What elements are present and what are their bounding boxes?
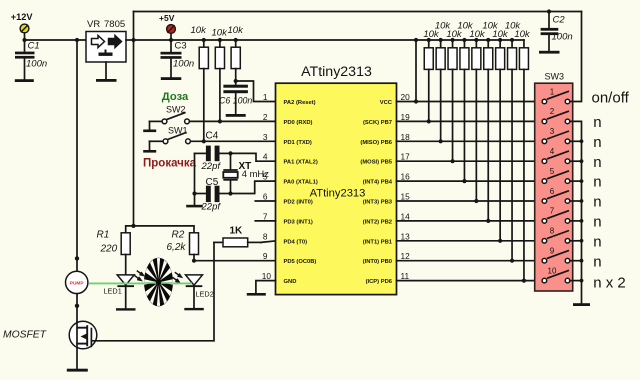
pin 11 name PD6 [366, 271, 410, 285]
svg-text:22pf: 22pf [201, 161, 222, 172]
svg-text:Прокачка: Прокачка [143, 158, 197, 170]
pin 5 name PA0 [263, 172, 318, 186]
svg-text:С6 100n: С6 100n [219, 95, 252, 105]
wire pin10 to ground [256, 281, 276, 293]
motor PUMP [66, 271, 88, 293]
svg-text:5: 5 [263, 172, 268, 182]
wire +12V rail to VR input [25, 39, 87, 41]
node C5 left [192, 191, 196, 195]
resistor bank 10k pin16 [460, 38, 469, 183]
switch SW3 row2 [542, 107, 570, 124]
wire SW3 row1 to top rail [570, 12, 582, 102]
capacitor C4 [195, 131, 231, 173]
svg-text:16: 16 [401, 172, 411, 182]
ground pin10 [247, 293, 266, 296]
svg-text:C4: C4 [206, 131, 219, 142]
ground C6 [226, 114, 246, 117]
svg-text:PA1 (XTAL2): PA1 (XTAL2) [284, 160, 318, 166]
svg-text:14: 14 [401, 211, 411, 221]
node Prokachka label [143, 158, 197, 170]
switch SW3 row1 [542, 87, 570, 103]
wire beam green [89, 282, 192, 284]
fan encoder disc [144, 258, 173, 307]
svg-text:PD1 (TXD): PD1 (TXD) [284, 140, 312, 146]
wire +5V riser vertical [133, 12, 135, 226]
capacitor C2 [541, 9, 573, 50]
svg-text:VCC: VCC [380, 100, 393, 106]
svg-text:7805: 7805 [104, 19, 125, 30]
terminal +12V [20, 24, 29, 33]
svg-text:17: 17 [401, 152, 411, 162]
svg-text:ATtiny2313: ATtiny2313 [301, 64, 372, 80]
svg-text:R1: R1 [97, 230, 110, 241]
wire SW2 to pin2 [189, 120, 275, 122]
node +12V label [11, 12, 34, 22]
wire pin14 to SW3 [397, 220, 543, 222]
wire feed to R2 [134, 226, 195, 233]
svg-text:R2: R2 [172, 230, 185, 241]
svg-text:100n: 100n [173, 59, 194, 70]
node pump top dot [75, 256, 79, 260]
svg-text:9: 9 [263, 251, 268, 261]
wire VR ground stem [105, 62, 107, 79]
wire main +5V rail y40 [134, 39, 524, 41]
svg-text:1: 1 [550, 87, 555, 96]
node label n row5 [593, 174, 601, 191]
wire feed to R1 [126, 226, 134, 233]
svg-text:ATtiny2313: ATtiny2313 [310, 188, 366, 200]
resistor bank 10k pin13 [496, 38, 505, 243]
node reset junction [234, 79, 238, 83]
svg-text:6,2k: 6,2k [167, 242, 187, 253]
svg-text:n: n [593, 154, 601, 171]
switch SW3 dip block [535, 72, 573, 292]
svg-text:13: 13 [401, 231, 411, 241]
pin 13 name PB1 [363, 231, 410, 245]
svg-text:6: 6 [550, 187, 555, 196]
node label n row7 [593, 214, 601, 231]
svg-text:C2: C2 [553, 15, 566, 26]
svg-text:100n: 100n [26, 59, 47, 70]
node bank labels row upper [435, 21, 522, 32]
resistor R6 1K gate [214, 226, 276, 247]
wire pin15 to SW3 [397, 200, 543, 202]
svg-text:n: n [593, 194, 601, 211]
ground SW1 [143, 150, 156, 153]
ground C4 C5 [186, 205, 203, 208]
capacitor C3 [161, 40, 195, 77]
svg-text:10k: 10k [482, 21, 499, 32]
svg-text:12: 12 [401, 251, 411, 261]
svg-text:10: 10 [548, 266, 557, 275]
node label n row4 [593, 154, 601, 171]
ground SW3 [573, 303, 590, 306]
svg-text:n: n [593, 174, 601, 191]
svg-text:GND: GND [284, 279, 297, 285]
LED LED1 [104, 271, 144, 309]
svg-text:SW1: SW1 [168, 126, 188, 136]
svg-text:6: 6 [263, 192, 268, 202]
pin 16 name PB4 [363, 172, 410, 186]
pin 18 name PB6 [360, 132, 410, 146]
svg-text:3: 3 [550, 127, 555, 136]
node +5V label [159, 13, 175, 23]
svg-text:10k: 10k [505, 21, 522, 32]
wire VR output to +5V riser [126, 39, 134, 41]
node VR output [131, 38, 135, 42]
svg-text:10k: 10k [457, 21, 474, 32]
svg-text:LED2: LED2 [196, 289, 214, 298]
svg-text:4: 4 [263, 152, 268, 162]
capacitor C1 [15, 40, 47, 79]
svg-text:100n: 100n [552, 32, 573, 43]
svg-text:1K: 1K [230, 226, 244, 237]
svg-text:20: 20 [401, 92, 411, 102]
switch SW3 row10 [542, 266, 583, 283]
svg-text:PA2 (Reset): PA2 (Reset) [284, 100, 316, 106]
svg-text:n x 2: n x 2 [593, 275, 626, 292]
capacitor C5 [195, 177, 231, 213]
pin 17 name PB5 [360, 152, 410, 166]
LED LED2 photodiode [173, 272, 214, 308]
wire pin20 VCC to SW3 [397, 101, 543, 103]
svg-text:2: 2 [550, 107, 555, 116]
node label n row3 [593, 134, 601, 151]
switch SW3 row3 [542, 127, 583, 144]
wire caps ground stem [194, 194, 196, 205]
resistor bank 10k pin12 [508, 38, 517, 263]
wire SW3 common to ground [570, 121, 582, 303]
node label n row2 [593, 114, 601, 131]
resistor R2 6,2k [167, 230, 199, 261]
svg-text:PD4 (T0): PD4 (T0) [284, 239, 308, 245]
svg-text:PUMP: PUMP [70, 280, 85, 286]
op-amp U2 ATtiny2313 body [276, 64, 397, 295]
svg-text:(INT1) PB1: (INT1) PB1 [363, 239, 393, 245]
resistor bank 10k pin14 [484, 38, 493, 223]
switch SW3 row4 [542, 147, 583, 164]
wire pin18 to SW3 [397, 140, 543, 142]
op-amp U1 regulator VR 7805 [86, 19, 126, 62]
svg-text:PD5 (OC0B): PD5 (OC0B) [284, 259, 317, 265]
svg-text:(INT0) PB0: (INT0) PB0 [363, 259, 392, 265]
svg-text:C1: C1 [28, 41, 40, 52]
svg-text:(SCK) PB7: (SCK) PB7 [363, 120, 392, 126]
svg-text:(INT2) PB2: (INT2) PB2 [363, 219, 392, 225]
svg-text:n: n [593, 134, 601, 151]
svg-text:PD2 (INT0): PD2 (INT0) [284, 200, 313, 206]
pin 15 name PB3 [363, 192, 410, 206]
svg-text:VR: VR [87, 19, 100, 30]
wire C4 to pin4 [231, 153, 276, 161]
svg-text:8: 8 [263, 231, 268, 241]
wire pin11 to SW3 [397, 280, 543, 282]
resistor bank 10k pin18 [436, 38, 445, 143]
svg-text:18: 18 [401, 132, 411, 142]
svg-text:Доза: Доза [162, 91, 189, 103]
switch SW3 row7 [542, 207, 583, 224]
capacitor C6 [219, 85, 252, 114]
svg-text:PA0 (XTAL1): PA0 (XTAL1) [284, 180, 318, 186]
svg-text:9: 9 [550, 247, 555, 256]
resistor R1 220 [97, 230, 131, 275]
wire +12V terminal to node [24, 33, 26, 40]
svg-text:8: 8 [550, 227, 555, 236]
node label on/off [592, 90, 630, 107]
svg-text:11: 11 [401, 271, 410, 281]
svg-text:n: n [593, 233, 601, 250]
svg-text:(INT4) PB4: (INT4) PB4 [363, 180, 393, 186]
svg-text:10k: 10k [212, 28, 229, 39]
resistor R3 10k pullup1 [191, 25, 209, 141]
resistor bank 10k pin15 [472, 38, 481, 203]
wire SW1 to pin3 [190, 140, 275, 142]
node C1 junction [22, 38, 26, 42]
wire pin12 to SW3 [397, 260, 543, 262]
node XT top [228, 151, 232, 155]
node R1 R2 feed [131, 224, 135, 228]
svg-text:3: 3 [263, 132, 268, 142]
pin 8 name PD4 [263, 231, 307, 245]
wire top +5V rail [134, 11, 582, 13]
svg-text:(MISO) PB6: (MISO) PB6 [360, 140, 392, 146]
ground C3 [161, 77, 182, 80]
pin 10 name GND [262, 271, 297, 285]
svg-text:4: 4 [550, 147, 555, 156]
node +5V tap [169, 33, 173, 42]
svg-text:(MOSI) PB5: (MOSI) PB5 [360, 160, 392, 166]
svg-text:2: 2 [263, 112, 268, 122]
svg-text:10k: 10k [435, 21, 452, 32]
svg-text:MOSFET: MOSFET [3, 330, 47, 341]
resistor bank 10k pin17 [448, 38, 457, 163]
wire pin16 to SW3 [397, 180, 543, 182]
pin 19 name PB7 [363, 112, 410, 126]
svg-text:+5V: +5V [159, 13, 175, 23]
node bank labels row lower [423, 29, 531, 40]
pin 3 name PD1 [263, 132, 312, 146]
resistor bank 10k pin19 [424, 38, 433, 124]
svg-text:n: n [593, 214, 601, 231]
wire C4 C5 left join [194, 153, 196, 193]
svg-text:10k: 10k [191, 25, 208, 36]
node label n row6 [593, 194, 601, 211]
svg-text:10: 10 [262, 271, 272, 281]
node label n row8 [593, 233, 601, 250]
switch SW1 [150, 126, 191, 151]
node sensor junction [192, 259, 196, 263]
wire C5 to pin5 [231, 181, 276, 193]
pin 1 name PA2 [263, 92, 316, 106]
pin 7 name PD3 stub [255, 211, 313, 225]
node pullup1 to pin3 [202, 139, 206, 143]
node pump bottom dot [75, 304, 79, 308]
node label n x 2 row10 [593, 275, 626, 292]
svg-text:10k: 10k [228, 25, 245, 36]
resistor bank 10k pin11 [519, 40, 528, 283]
node XT bottom [228, 191, 232, 195]
svg-text:7: 7 [263, 211, 268, 221]
svg-text:C3: C3 [175, 41, 187, 52]
ground VR [96, 79, 117, 82]
svg-text:LED1: LED1 [104, 286, 122, 295]
pin 4 name PA1 [263, 152, 318, 166]
wire VCC riser [414, 38, 418, 104]
wire pin13 to SW3 [397, 240, 543, 242]
ground C2 [539, 51, 560, 54]
wire reset to pin1 [236, 81, 276, 102]
svg-text:on/off: on/off [592, 90, 630, 107]
svg-text:15: 15 [401, 192, 411, 202]
wire pump to mosfet [76, 294, 78, 322]
svg-text:1: 1 [263, 92, 268, 102]
svg-text:(INT3) PB3: (INT3) PB3 [363, 200, 393, 206]
pin 9 name PD5 [263, 251, 317, 265]
switch SW3 row9 [542, 247, 583, 264]
wire mosfet gate [91, 242, 214, 340]
wire pin19 to SW3 [397, 120, 543, 122]
transistor Q1 MOSFET [3, 321, 97, 369]
ground SW2 [143, 130, 156, 133]
ground MOSFET [67, 369, 88, 372]
node Doza label [162, 91, 189, 103]
pin 14 name PB2 [363, 211, 410, 225]
switch SW2 [150, 105, 190, 130]
svg-text:+12V: +12V [11, 12, 34, 22]
node label n row9 [593, 253, 601, 270]
switch SW3 row8 [542, 227, 583, 244]
switch SW3 row5 [542, 167, 583, 184]
pin 2 name PD0 [263, 112, 313, 126]
wire pump drain vertical [76, 40, 78, 271]
switch SW3 row6 [542, 187, 583, 204]
svg-text:n: n [593, 114, 601, 131]
wire sensor to pin9 [194, 260, 276, 262]
svg-text:n: n [593, 253, 601, 270]
svg-text:PD3 (INT1): PD3 (INT1) [284, 219, 313, 225]
svg-text:(ICP) PD6: (ICP) PD6 [366, 279, 393, 285]
pin 20 name VCC [380, 92, 410, 106]
crystal XT 4mHz [223, 153, 269, 193]
wire pin17 to SW3 [397, 160, 543, 162]
terminal +5V [167, 25, 176, 34]
ground LED2 [184, 308, 204, 310]
pin 6 name PD2 stub [255, 192, 313, 206]
svg-text:22pf: 22pf [201, 202, 222, 213]
svg-text:19: 19 [401, 112, 411, 122]
ground LED1 [116, 308, 136, 310]
svg-text:7: 7 [550, 207, 555, 216]
resistor R5 10k pullup3 [228, 25, 245, 85]
svg-text:PD0 (RXD): PD0 (RXD) [284, 120, 313, 126]
pin 12 name PB0 [363, 251, 410, 265]
ground C1 [15, 79, 34, 82]
resistor R4 10k pullup2 [212, 28, 229, 122]
node pullup2 to pin2 [218, 119, 222, 123]
svg-text:5: 5 [550, 167, 555, 176]
svg-text:220: 220 [100, 244, 118, 255]
svg-text:SW3: SW3 [545, 72, 565, 82]
node pump branch [75, 38, 79, 42]
